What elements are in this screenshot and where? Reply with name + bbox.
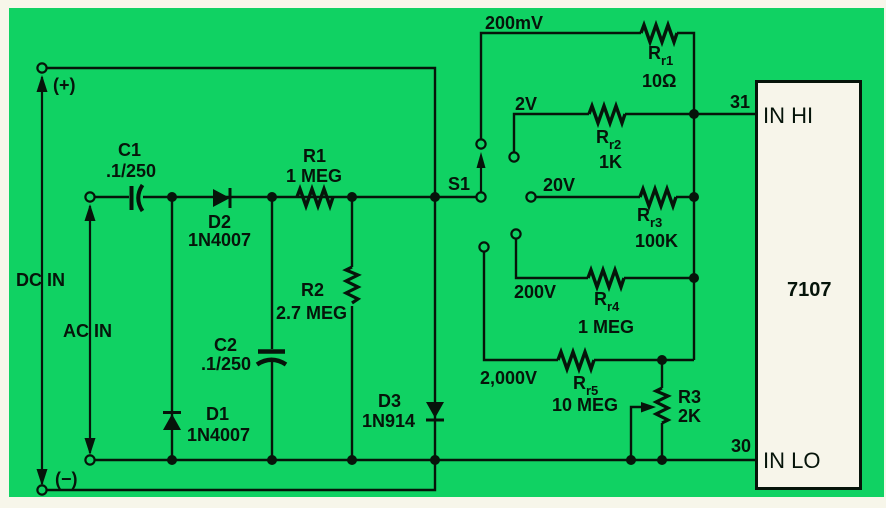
resistor R1 xyxy=(286,146,342,206)
switch S1 pole xyxy=(448,174,486,202)
svg-text:DC IN: DC IN xyxy=(16,270,65,290)
node AC IN label xyxy=(63,321,112,341)
svg-text:7107: 7107 xyxy=(787,279,832,301)
svg-text:1 MEG: 1 MEG xyxy=(578,317,634,337)
node DC IN label xyxy=(16,270,65,290)
resistor Rr3 xyxy=(635,189,678,251)
terminal (-) xyxy=(37,469,77,495)
svg-text:(−): (−) xyxy=(55,469,78,489)
junction bus/31 xyxy=(689,109,699,119)
junction D1 bottom xyxy=(167,455,177,465)
wire bottom AC rail xyxy=(95,459,756,461)
wire 20V range xyxy=(536,175,640,197)
resistor R2 xyxy=(276,267,358,323)
svg-text:AC IN: AC IN xyxy=(63,321,112,341)
wire 2000V range xyxy=(480,252,558,388)
terminal AC IN bottom xyxy=(85,455,94,464)
svg-text:.1/250: .1/250 xyxy=(106,161,156,181)
resistor Rr2 xyxy=(589,106,625,172)
node pin 30 label xyxy=(731,436,751,456)
svg-text:31: 31 xyxy=(730,92,750,112)
wire 2V range xyxy=(514,94,589,152)
svg-text:1K: 1K xyxy=(599,152,622,172)
capacitor C1 xyxy=(106,140,156,211)
wire 200V range xyxy=(514,239,588,302)
svg-text:R1: R1 xyxy=(303,146,326,166)
svg-text:C1: C1 xyxy=(118,140,141,160)
diode D2 xyxy=(188,188,251,250)
wire right bus vertical xyxy=(693,114,695,360)
svg-text:D1: D1 xyxy=(206,404,229,424)
svg-text:R2: R2 xyxy=(301,280,324,300)
svg-text:2.7 MEG: 2.7 MEG xyxy=(276,303,347,323)
wire R3 wiper xyxy=(631,402,656,460)
svg-text:1 MEG: 1 MEG xyxy=(286,166,342,186)
svg-text:10 MEG: 10 MEG xyxy=(552,395,618,415)
terminal (+) xyxy=(37,63,75,95)
IC U1 7107 xyxy=(757,82,861,489)
wire (+) top rail xyxy=(42,68,435,197)
wire AC IN vertical with arrows xyxy=(85,204,96,455)
junction C2 bottom xyxy=(267,455,277,465)
wire D1 branch xyxy=(171,197,173,460)
wire 200mV range xyxy=(481,13,641,139)
junction D3 bottom xyxy=(430,455,440,465)
wire main input rail xyxy=(95,196,477,198)
svg-text:(+): (+) xyxy=(53,75,76,95)
svg-text:2V: 2V xyxy=(515,94,537,114)
junction wiper bottom xyxy=(626,455,636,465)
svg-text:2K: 2K xyxy=(678,406,701,426)
switch S1 wiper arrow xyxy=(477,152,486,192)
junction C1/D1 xyxy=(167,192,177,202)
svg-text:IN LO: IN LO xyxy=(763,448,820,473)
switch S1 contact 2V xyxy=(509,152,518,161)
svg-text:1N4007: 1N4007 xyxy=(188,230,251,250)
resistor Rr1 xyxy=(641,25,677,91)
svg-text:.1/250: .1/250 xyxy=(201,354,251,374)
wire Rr4 to bus xyxy=(624,277,694,279)
diode D3 xyxy=(362,391,444,431)
svg-text:S1: S1 xyxy=(448,174,470,194)
junction bus/Rr4 xyxy=(689,273,699,283)
terminal AC IN top xyxy=(85,192,94,201)
wire DC IN vertical with arrows xyxy=(37,75,48,486)
svg-text:10Ω: 10Ω xyxy=(642,71,676,91)
wire pin 31 xyxy=(625,92,756,114)
svg-text:1N4007: 1N4007 xyxy=(187,425,250,445)
svg-text:1N914: 1N914 xyxy=(362,411,415,431)
resistor Rr5 xyxy=(552,352,618,415)
wire D3 branch xyxy=(434,197,436,460)
wire (-) bottom rail xyxy=(47,460,435,490)
wire C2 branch xyxy=(271,197,273,460)
svg-text:30: 30 xyxy=(731,436,751,456)
svg-text:100K: 100K xyxy=(635,231,678,251)
wire R2 branch xyxy=(351,197,353,460)
junction R1/R2 xyxy=(347,192,357,202)
wire Rr5 to bus corner xyxy=(594,359,694,361)
svg-text:2,000V: 2,000V xyxy=(480,368,537,388)
switch S1 contact 20V xyxy=(526,192,535,201)
wire Rr1 to bus xyxy=(677,33,694,114)
switch S1 contact 2000V xyxy=(479,242,488,251)
junction R3 top xyxy=(657,355,667,365)
switch S1 contact 200V xyxy=(511,229,520,238)
junction R2 bottom xyxy=(347,455,357,465)
junction D2/C2 xyxy=(267,192,277,202)
resistor Rr4 xyxy=(578,270,634,337)
svg-text:IN HI: IN HI xyxy=(763,103,813,128)
svg-text:R3: R3 xyxy=(678,387,701,407)
switch S1 contact 200mV xyxy=(476,139,485,148)
svg-text:200V: 200V xyxy=(514,282,556,302)
svg-text:20V: 20V xyxy=(543,175,575,195)
svg-text:D2: D2 xyxy=(208,212,231,232)
junction bus/Rr3 xyxy=(689,192,699,202)
svg-text:200mV: 200mV xyxy=(485,13,543,33)
diode D1 xyxy=(163,404,250,445)
junction R3 bottom xyxy=(657,455,667,465)
wire Rr3 to bus xyxy=(676,196,694,198)
junction S1 branch xyxy=(430,192,440,202)
capacitor C2 xyxy=(201,335,286,374)
resistor R3 potentiometer xyxy=(656,360,701,460)
svg-text:C2: C2 xyxy=(214,335,237,355)
svg-text:D3: D3 xyxy=(378,391,401,411)
